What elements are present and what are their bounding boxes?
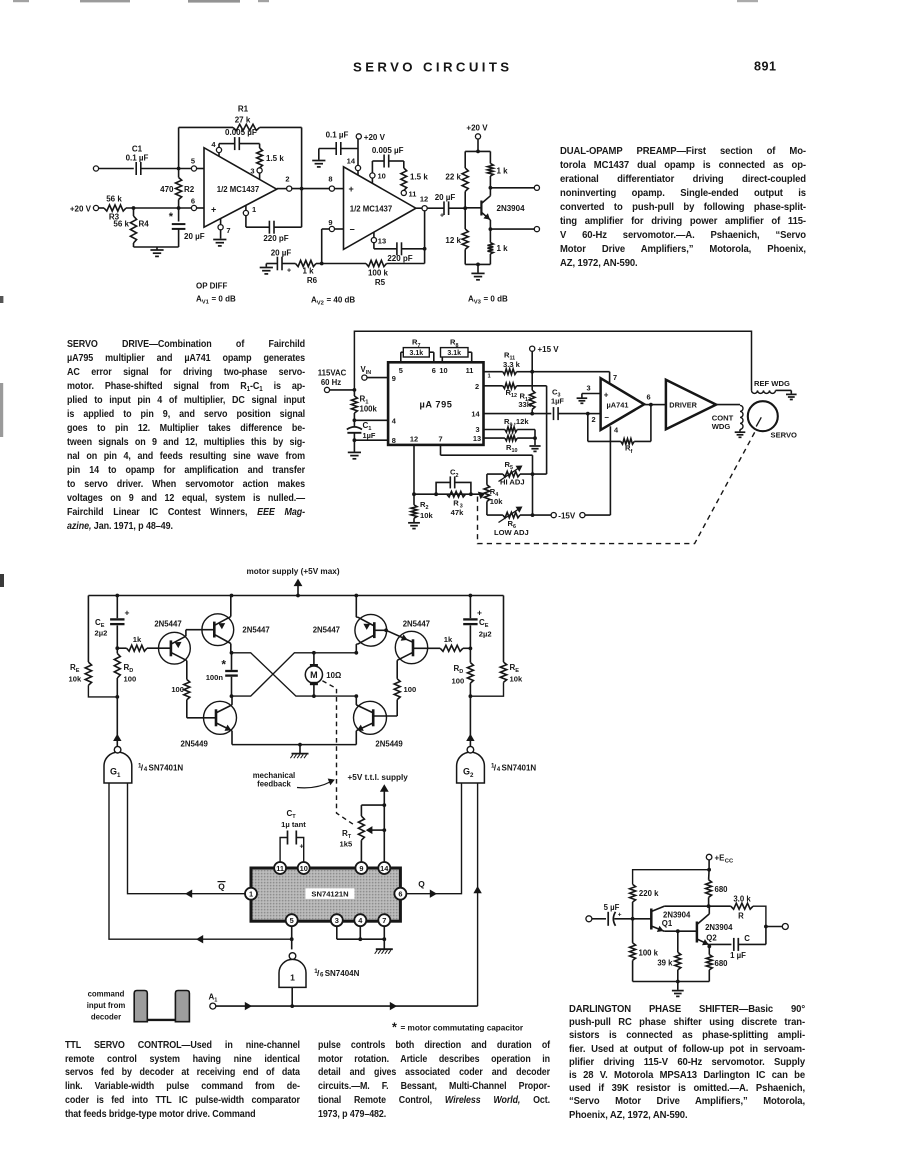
ground: [348, 440, 361, 459]
svg-text:891: 891: [754, 60, 777, 74]
capacitor C 1uF: [709, 927, 766, 961]
+20 V supply terminal: [70, 205, 99, 214]
ground: [260, 264, 273, 274]
dashed mechanical link to pot: [478, 431, 756, 544]
pin 14 of U5: [378, 862, 390, 874]
svg-text:CC: CC: [725, 859, 734, 865]
pin 5 of U5: [286, 914, 298, 926]
svg-text:+: +: [618, 911, 622, 918]
svg-text:6: 6: [191, 197, 195, 206]
svg-text:M: M: [310, 670, 318, 680]
svg-text:decoder: decoder: [91, 1012, 121, 1021]
inductor CONT WDG coil: [712, 405, 743, 431]
wire into inverting input: [588, 414, 601, 424]
+Ecc supply terminal: [706, 853, 734, 864]
node: [434, 492, 438, 496]
svg-text:1: 1: [252, 205, 256, 214]
ground: [471, 264, 484, 279]
pin 6 of op-amp U1: [191, 197, 204, 211]
inductor REF WDG coil: [752, 379, 792, 394]
svg-text:9: 9: [359, 864, 363, 873]
svg-text:input from: input from: [87, 1001, 126, 1010]
resistor 12k: [445, 208, 468, 264]
svg-text:4: 4: [614, 426, 619, 435]
resistor R11 3.3k: [503, 350, 532, 374]
svg-text:14: 14: [471, 410, 480, 419]
svg-text:feedback: feedback: [257, 780, 291, 789]
svg-text:HI ADJ: HI ADJ: [500, 477, 525, 486]
svg-text:1 k: 1 k: [497, 244, 509, 253]
svg-text:*: *: [169, 211, 174, 223]
svg-text:+: +: [604, 390, 609, 399]
wire Q2 emitter node: [707, 945, 711, 949]
top rail: [88, 595, 503, 597]
wire pin 8: [354, 439, 388, 441]
svg-text:220 pF: 220 pF: [263, 234, 288, 243]
svg-text:100 k: 100 k: [368, 269, 389, 278]
node: [115, 594, 119, 598]
svg-text:SN74121N: SN74121N: [311, 890, 348, 899]
node: [489, 227, 493, 231]
resistor 100 left: [171, 680, 189, 718]
svg-text:10k: 10k: [490, 497, 503, 506]
potentiometer RT 1k5: [340, 805, 385, 862]
gate G2 1/4 SN7401N: [457, 746, 537, 783]
115VAC 60Hz input terminal: [318, 369, 355, 393]
svg-text:4: 4: [144, 766, 148, 773]
node: [631, 917, 635, 921]
wire G2 input left from pin 6: [406, 783, 462, 894]
resistor 1k left: [117, 635, 171, 651]
svg-text:11: 11: [276, 864, 284, 873]
svg-text:0.1 µF: 0.1 µF: [126, 154, 149, 163]
wire C1 to pin 5: [141, 168, 192, 170]
resistor R 3.0k: [709, 895, 766, 927]
node: [533, 436, 537, 440]
svg-text:1/2 MC1437: 1/2 MC1437: [217, 185, 259, 194]
svg-text:1: 1: [488, 374, 492, 380]
transistor Q3 2N5447: [313, 596, 387, 653]
svg-text:0.005 µF: 0.005 µF: [372, 146, 404, 155]
svg-text:R4: R4: [139, 220, 150, 229]
svg-text:SERVO CIRCUITS: SERVO CIRCUITS: [353, 60, 512, 75]
svg-text:3.3 k: 3.3 k: [503, 360, 521, 369]
ground: [408, 523, 420, 529]
svg-text:6: 6: [398, 890, 402, 899]
caption ttl servo control right column: [318, 1039, 550, 1121]
wire pin14 to +20V: [357, 139, 359, 166]
svg-text:+5V t.t.l. supply: +5V t.t.l. supply: [348, 773, 409, 782]
svg-text:2: 2: [591, 415, 595, 424]
svg-text:56 k: 56 k: [106, 195, 122, 204]
wire inverter input: [291, 987, 293, 1006]
svg-text:CE: CE: [479, 618, 489, 629]
resistor RD left 100: [114, 648, 136, 697]
svg-text:+: +: [300, 842, 305, 851]
resistor RE left 10k: [69, 596, 118, 697]
wire Q4 base to 1k: [413, 647, 440, 649]
transistor Q4 2N5447: [374, 620, 430, 679]
capacitor C1 1uF: [347, 420, 376, 440]
svg-text:2N5449: 2N5449: [375, 739, 403, 748]
svg-text:20 µF: 20 µF: [271, 249, 292, 258]
pin 9 of op-amp U2: [328, 218, 343, 232]
caption darlington phase shifter: [569, 1003, 805, 1122]
svg-text:= 0 dB: = 0 dB: [484, 295, 508, 304]
svg-text:1k: 1k: [444, 635, 453, 644]
node: [476, 263, 480, 267]
output pin 6 node: [644, 392, 653, 406]
pin 4 of op-amp U1: [211, 140, 221, 156]
input terminal A1: [209, 992, 218, 1009]
gate G1 1/4 SN7401N: [104, 746, 183, 783]
svg-text:3.0 k: 3.0 k: [733, 895, 751, 904]
resistor R2 470: [160, 169, 195, 209]
svg-text:0.005 µF: 0.005 µF: [225, 128, 257, 137]
svg-text:+: +: [440, 213, 444, 220]
resistor 220k: [630, 884, 659, 918]
svg-text:2N5447: 2N5447: [154, 619, 181, 628]
capacitor C2: [436, 468, 471, 495]
pin 11 of op-amp U2: [401, 190, 416, 199]
svg-text:C: C: [744, 934, 750, 943]
node: [115, 695, 119, 699]
label command input from decoder: [87, 990, 126, 1022]
inverter 1/6 SN7404N: [279, 953, 360, 988]
pin 3 of op-amp U1: [250, 167, 262, 180]
wire to gate G1 with arrow: [113, 697, 121, 747]
arrow on Q-bar return: [196, 935, 203, 943]
resistor R12: [484, 383, 547, 399]
resistor R5 100k: [322, 260, 425, 287]
resistor R4 56k: [113, 208, 149, 247]
svg-text:8: 8: [328, 175, 332, 184]
resistor Rf feedback: [588, 405, 651, 455]
svg-text:2: 2: [475, 382, 479, 391]
motor M 10 ohm: [305, 651, 341, 698]
svg-text:1µF: 1µF: [551, 396, 564, 405]
svg-text:R5: R5: [505, 460, 513, 471]
wire pin 5 junction: [290, 926, 294, 950]
svg-text:= 0 dB: = 0 dB: [212, 295, 236, 304]
node: [354, 651, 358, 655]
pin 10 of U5: [298, 862, 310, 874]
wire bottom to R4: [414, 493, 483, 495]
monostable SN74121N: [251, 868, 400, 921]
node: [530, 412, 534, 416]
svg-text:WDG: WDG: [712, 422, 731, 431]
wire G2 input right from A1 line: [473, 783, 481, 1006]
svg-text:10: 10: [439, 366, 447, 375]
svg-text:1k: 1k: [133, 635, 142, 644]
resistor 1k right: [440, 635, 470, 651]
resistor R7 3.1k: [401, 338, 434, 363]
capacitor C1 0.1uF: [126, 145, 149, 176]
svg-text:3: 3: [475, 425, 479, 434]
svg-text:DRIVER: DRIVER: [669, 400, 697, 409]
node: [177, 167, 181, 171]
svg-text:R2: R2: [420, 500, 428, 511]
capacitor 100n commutating: [206, 653, 238, 696]
svg-text:REF WDG: REF WDG: [754, 379, 790, 388]
svg-text:0.1 µF: 0.1 µF: [326, 130, 349, 139]
ground: [529, 438, 540, 451]
svg-text:µA 795: µA 795: [419, 400, 452, 410]
resistor 1.5k: [401, 161, 428, 190]
node: [531, 513, 535, 517]
capacitor 0.005uF: [219, 128, 260, 150]
svg-text:12: 12: [410, 434, 418, 443]
pin 4 wire: [610, 426, 619, 515]
node: [230, 594, 234, 598]
top rail: [633, 870, 710, 885]
node: [115, 646, 119, 650]
potentiometer R5 HI ADJ: [487, 460, 547, 487]
wire 220pF to output node: [301, 189, 303, 228]
svg-text:+: +: [287, 268, 291, 275]
svg-text:3.1k: 3.1k: [409, 350, 423, 357]
node: [469, 492, 473, 496]
wire feedback top: [179, 126, 233, 128]
svg-text:1µ tant: 1µ tant: [281, 820, 306, 829]
wire Q1 emitter to Q2 base: [664, 930, 697, 932]
caption servo drive: [67, 338, 305, 534]
+15 V supply terminal: [530, 345, 560, 372]
node: [298, 743, 302, 747]
input terminal: [586, 916, 592, 922]
svg-text:14: 14: [347, 157, 356, 166]
+5V ttl supply arrow: [348, 773, 409, 805]
svg-text:10k: 10k: [420, 511, 433, 520]
svg-text:27 k: 27 k: [235, 116, 251, 125]
svg-text:8: 8: [392, 436, 396, 445]
node: [469, 594, 473, 598]
node: [230, 694, 234, 698]
svg-text:2N3904: 2N3904: [705, 923, 733, 932]
potentiometer R4 10k: [484, 474, 503, 515]
resistor RD right 100: [452, 648, 474, 696]
pin 10 of op-amp U2: [370, 172, 386, 184]
input terminal: [93, 166, 98, 171]
svg-text:-15V: -15V: [558, 511, 576, 520]
amplifier DRIVER: [666, 380, 716, 429]
output terminal lower: [490, 227, 539, 232]
svg-text:1: 1: [290, 972, 295, 982]
svg-text:+E: +E: [715, 853, 726, 862]
resistor 1k emitter: [488, 229, 509, 264]
svg-text:R5: R5: [375, 278, 386, 287]
pin 3 of U5: [331, 914, 343, 926]
svg-text:R6: R6: [307, 276, 318, 285]
svg-text:56 k: 56 k: [113, 220, 129, 229]
svg-text:20 µF: 20 µF: [435, 193, 456, 202]
svg-text:2µ2: 2µ2: [479, 629, 492, 638]
svg-text:1 k: 1 k: [302, 267, 314, 276]
+20 V terminal: [356, 133, 385, 142]
svg-text:100n: 100n: [206, 673, 224, 682]
svg-text:SN7401N: SN7401N: [149, 764, 184, 773]
svg-text:RD: RD: [454, 664, 464, 675]
svg-text:1 µF: 1 µF: [730, 951, 746, 960]
transistor Q2 2N3904: [697, 906, 733, 945]
node: [382, 803, 386, 807]
transistor Q1 2N5447: [154, 619, 190, 679]
svg-text:2N5449: 2N5449: [181, 739, 209, 748]
svg-text:11: 11: [409, 190, 417, 199]
resistor RE right 10k: [470, 596, 523, 697]
wire R3 to pin 6: [126, 207, 192, 209]
svg-text:R2: R2: [184, 185, 195, 194]
resistor 1.5k: [257, 144, 285, 168]
node: [676, 980, 680, 984]
capacitor CT 1u tant: [280, 809, 306, 863]
capacitor 5uF input: [592, 903, 633, 926]
wire pin 9 down: [322, 229, 330, 264]
svg-text:command: command: [88, 990, 125, 999]
capacitor 20uF: [266, 249, 295, 275]
resistor R8 3.1k: [441, 338, 472, 363]
node: [354, 694, 358, 698]
svg-text:9: 9: [392, 374, 396, 383]
svg-text:AV3: AV3: [468, 295, 482, 306]
pins 3 4 7 common ground wire: [337, 926, 386, 941]
svg-text:AV1: AV1: [196, 295, 210, 306]
-15V supply terminals: [551, 511, 610, 520]
resistor R1 100k: [351, 390, 377, 420]
node: [463, 206, 467, 210]
wire pin 14: [484, 413, 552, 415]
arrow on pin6 wire: [430, 890, 437, 898]
svg-text:SN7404N: SN7404N: [325, 969, 360, 978]
wiper arrow into R4: [478, 492, 485, 500]
wire pin 14 riser: [383, 805, 385, 862]
caption dual-opamp preamp: [560, 145, 806, 271]
arrow on pin1 wire: [185, 890, 192, 898]
capacitor CE right 2u2: [463, 596, 491, 649]
capacitor 0.1uF: [319, 130, 358, 155]
pin 12 wire: [413, 445, 415, 494]
svg-text:10k: 10k: [69, 675, 82, 684]
pin 8 of op-amp U2: [328, 175, 343, 192]
pin 7 of op-amp U1: [218, 219, 231, 235]
svg-text:= 40 dB: = 40 dB: [327, 296, 356, 305]
svg-text:100: 100: [452, 676, 465, 685]
node: [586, 412, 590, 416]
ground: [786, 390, 797, 399]
ground: [312, 149, 325, 167]
op-amp U1 1/2 MC1437: [204, 148, 277, 228]
svg-text:2N3904: 2N3904: [497, 204, 526, 213]
command input wire A1: [216, 1002, 478, 1010]
resistor R2 10k: [411, 494, 433, 522]
wire +15V rail to pin 7: [532, 372, 609, 384]
svg-text:Rf: Rf: [625, 444, 632, 455]
resistor 1k collector: [488, 151, 509, 187]
svg-text:10: 10: [378, 172, 386, 181]
svg-text:C1: C1: [132, 145, 143, 154]
svg-text:+15 V: +15 V: [538, 345, 560, 354]
node: [489, 186, 493, 190]
wire feedback up: [178, 127, 180, 168]
wire to stage 2: [292, 188, 330, 190]
svg-text:1µF: 1µF: [363, 431, 376, 440]
resistor R9 12k pin 3: [484, 417, 536, 438]
svg-text:100: 100: [124, 675, 137, 684]
svg-text:+: +: [349, 184, 354, 194]
pin 5 of op-amp U1: [191, 157, 204, 172]
svg-text:100k: 100k: [360, 405, 378, 414]
svg-text:RE: RE: [510, 663, 520, 674]
svg-text:2N5447: 2N5447: [313, 626, 340, 635]
svg-text:R: R: [738, 912, 744, 921]
caption ttl servo control left column: [65, 1039, 300, 1121]
svg-text:100: 100: [171, 685, 184, 694]
svg-text:RE: RE: [70, 663, 80, 674]
node: [132, 206, 136, 210]
pin 6 of U5: [394, 888, 406, 900]
node: [320, 262, 324, 266]
svg-text:10: 10: [300, 864, 308, 873]
node: [469, 647, 473, 651]
svg-text:A1: A1: [209, 992, 218, 1003]
svg-text:2N5447: 2N5447: [403, 620, 430, 629]
svg-text:5: 5: [191, 157, 195, 166]
pin 7 of U5: [378, 914, 390, 926]
node: [531, 472, 535, 476]
svg-text:220 k: 220 k: [639, 889, 659, 898]
svg-text:1/2 MC1437: 1/2 MC1437: [350, 205, 392, 214]
resistor 100k: [630, 919, 659, 982]
svg-text:1: 1: [249, 890, 253, 899]
node: [353, 418, 357, 422]
svg-text:Q2: Q2: [706, 934, 717, 943]
capacitor 0.005uF: [372, 146, 404, 173]
ground hatched: [290, 745, 308, 759]
resistor 100 right: [394, 679, 416, 716]
transistor Q6 2N5449: [354, 696, 404, 748]
VIN input terminal: [361, 365, 389, 380]
motor supply arrow: [294, 579, 303, 596]
wire to gate G2 with arrow: [466, 696, 474, 747]
svg-text:13: 13: [473, 434, 481, 443]
svg-text:2: 2: [285, 175, 289, 184]
svg-text:20 µF: 20 µF: [184, 232, 205, 241]
svg-text:680: 680: [715, 959, 729, 968]
node: [354, 594, 358, 598]
transistor Q 2N3904: [465, 188, 525, 229]
note motor commutating capacitor: [392, 1020, 524, 1034]
scan mark top edge: [13, 0, 758, 3]
wiper of RT: [366, 826, 386, 834]
node: [707, 868, 711, 872]
resistor 680 upper: [706, 870, 729, 907]
wire feedback to output node: [260, 127, 302, 188]
svg-text:R: R: [453, 498, 459, 507]
potentiometer R6 LOW ADJ: [487, 507, 551, 538]
resistor 22k: [445, 151, 468, 208]
resistor R10 pin 13: [484, 436, 536, 455]
svg-text:SERVO: SERVO: [771, 430, 798, 439]
svg-text:6: 6: [320, 971, 324, 978]
node: [353, 388, 357, 392]
resistor 39k: [657, 931, 680, 981]
svg-text:14: 14: [380, 864, 389, 873]
wire pin 2 down to R5: [546, 386, 548, 474]
svg-text:1.5 k: 1.5 k: [410, 173, 428, 182]
svg-text:9: 9: [328, 218, 332, 227]
output terminal: [766, 924, 788, 930]
svg-text:10Ω: 10Ω: [326, 671, 341, 680]
